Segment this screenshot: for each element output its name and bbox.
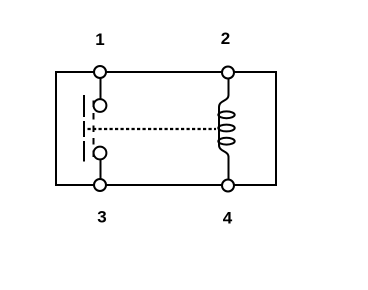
wire lower contact to terminal 3 [100, 159, 102, 185]
coil lead and spine [219, 72, 229, 185]
mechanical linkage dashed horizontal [88, 128, 217, 130]
terminal 2 [222, 67, 234, 79]
terminal 3 [94, 179, 106, 191]
svg-text:1: 1 [95, 30, 104, 49]
coil loop 1 [218, 111, 234, 118]
relay case outline [56, 72, 276, 185]
wire terminal 1 to upper contact [100, 72, 102, 100]
armature bar [83, 95, 85, 162]
svg-text:4: 4 [223, 209, 233, 228]
mechanical linkage dashed vertical [93, 101, 95, 161]
terminal 4 [222, 180, 234, 192]
lower fixed contact [94, 147, 107, 160]
terminal 1 [94, 66, 106, 78]
coil loop 2 [218, 125, 234, 132]
svg-text:3: 3 [97, 208, 106, 227]
coil loop 3 [218, 138, 234, 145]
svg-text:2: 2 [221, 29, 230, 48]
upper fixed contact [94, 99, 107, 112]
